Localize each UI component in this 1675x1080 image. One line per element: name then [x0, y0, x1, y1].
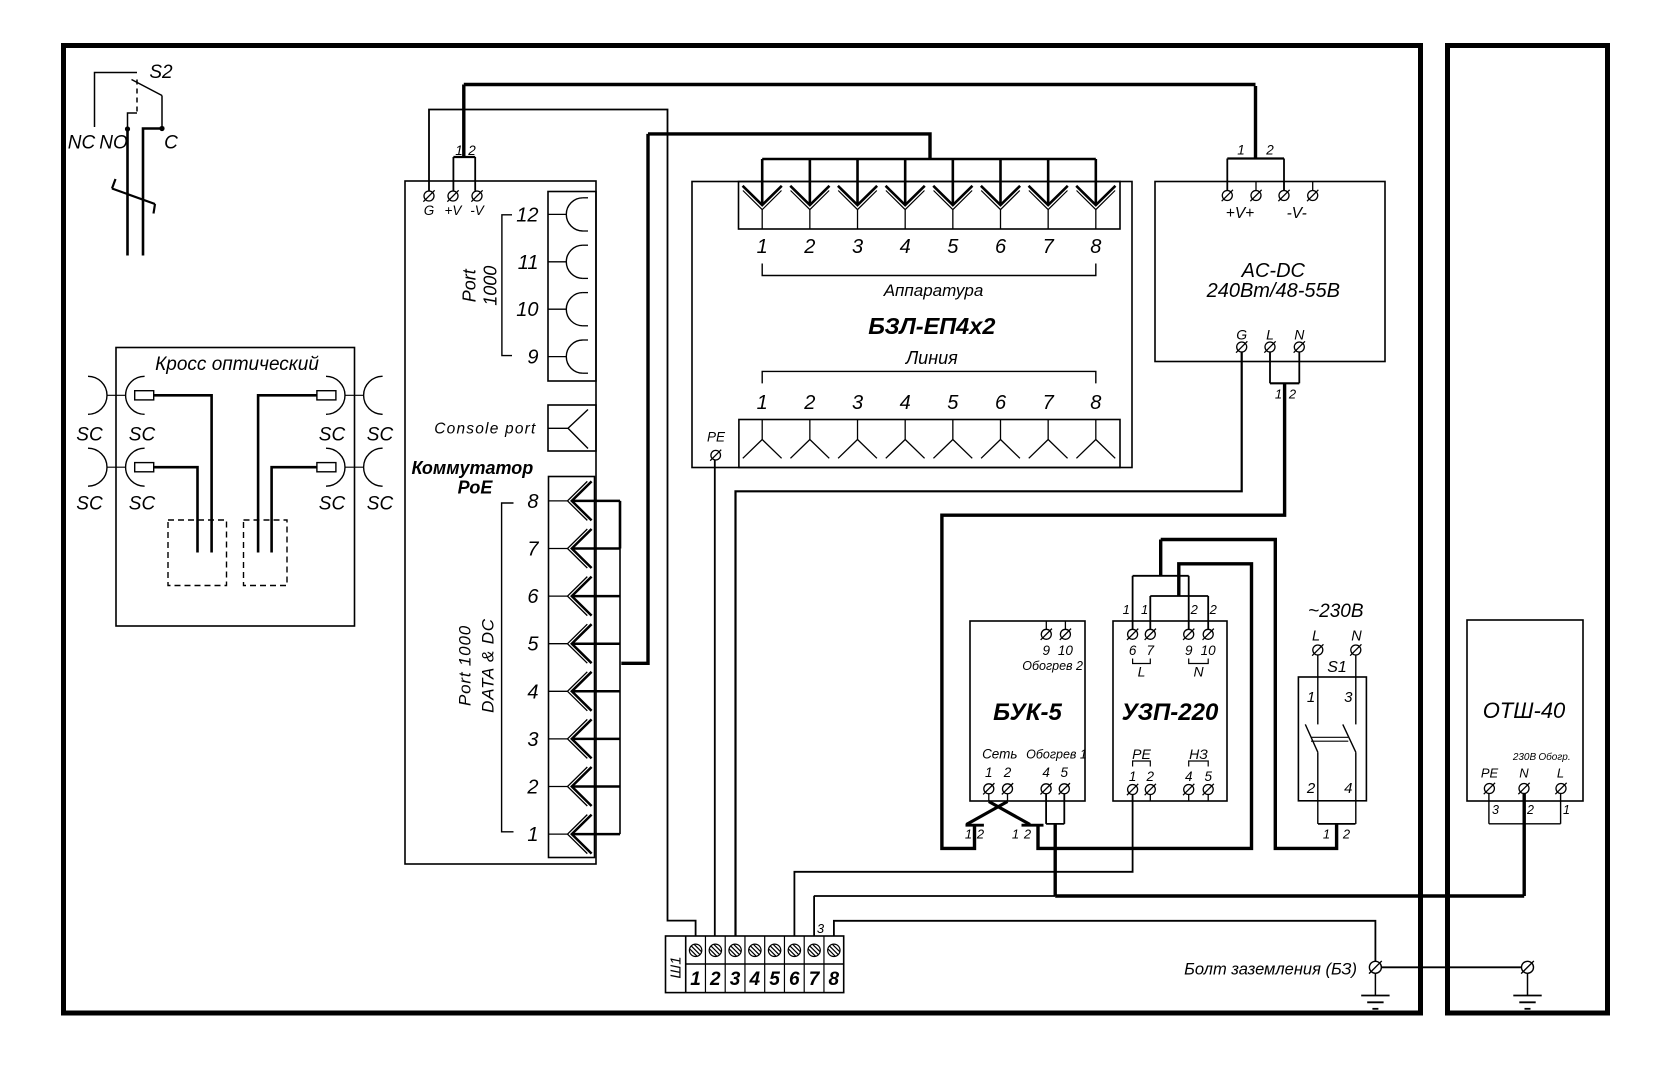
svg-text:БЗЛ-ЕП4х2: БЗЛ-ЕП4х2 — [868, 313, 995, 339]
svg-text:SC: SC — [319, 425, 346, 446]
svg-text:7: 7 — [1043, 392, 1055, 414]
svg-text:Обогр.: Обогр. — [1538, 751, 1570, 763]
svg-text:Линия: Линия — [905, 348, 958, 368]
svg-text:DATA & DC: DATA & DC — [479, 618, 498, 713]
svg-text:Ш1: Ш1 — [668, 956, 685, 978]
svg-text:2: 2 — [709, 969, 721, 990]
svg-text:NO: NO — [99, 133, 128, 154]
svg-text:2: 2 — [1306, 780, 1316, 797]
svg-text:-V-: -V- — [1287, 205, 1307, 222]
svg-text:1: 1 — [1123, 602, 1130, 617]
svg-text:L: L — [1138, 664, 1146, 680]
svg-text:S2: S2 — [149, 62, 173, 83]
svg-text:2: 2 — [526, 777, 538, 799]
svg-text:SC: SC — [129, 494, 156, 515]
svg-text:5: 5 — [527, 634, 539, 656]
svg-text:УЗП-220: УЗП-220 — [1122, 699, 1219, 726]
svg-text:2: 2 — [976, 827, 985, 842]
svg-text:3: 3 — [1344, 689, 1353, 706]
svg-text:Коммутатор: Коммутатор — [412, 458, 534, 478]
svg-text:SC: SC — [129, 425, 156, 446]
svg-text:PE: PE — [707, 430, 726, 445]
svg-text:РоЕ: РоЕ — [458, 478, 494, 498]
svg-text:4: 4 — [1042, 765, 1050, 780]
svg-text:Болт заземления (БЗ): Болт заземления (БЗ) — [1184, 961, 1357, 979]
svg-text:2: 2 — [1003, 765, 1012, 780]
svg-text:1: 1 — [690, 969, 701, 990]
svg-text:2: 2 — [1288, 387, 1297, 402]
svg-text:1: 1 — [1141, 602, 1148, 617]
svg-text:SC: SC — [76, 425, 103, 446]
svg-text:3: 3 — [852, 392, 863, 414]
svg-text:1: 1 — [1012, 827, 1019, 842]
svg-text:6: 6 — [995, 236, 1007, 258]
svg-text:5: 5 — [947, 392, 959, 414]
svg-text:3: 3 — [527, 729, 538, 751]
svg-text:N: N — [1193, 664, 1204, 680]
svg-text:1: 1 — [757, 236, 768, 258]
svg-text:2: 2 — [1190, 602, 1199, 617]
svg-text:2: 2 — [467, 143, 476, 158]
svg-text:10: 10 — [1201, 643, 1217, 658]
svg-text:6: 6 — [789, 969, 800, 990]
svg-text:PE: PE — [1481, 766, 1499, 781]
svg-text:5: 5 — [769, 969, 780, 990]
svg-text:9: 9 — [1185, 643, 1193, 658]
svg-text:C: C — [164, 133, 178, 154]
svg-text:Аппаратура: Аппаратура — [883, 281, 984, 300]
svg-text:2: 2 — [1023, 827, 1032, 842]
svg-text:Сеть: Сеть — [982, 747, 1017, 762]
svg-text:1: 1 — [757, 392, 768, 414]
svg-text:8: 8 — [829, 969, 840, 990]
svg-text:2: 2 — [1265, 143, 1274, 158]
svg-text:7: 7 — [809, 969, 821, 990]
svg-text:2: 2 — [803, 392, 815, 414]
svg-text:8: 8 — [1090, 392, 1101, 414]
svg-text:PE: PE — [1132, 746, 1151, 762]
svg-text:L: L — [1557, 766, 1564, 781]
svg-text:6: 6 — [527, 586, 539, 608]
svg-text:1: 1 — [985, 765, 993, 780]
svg-text:Обогрев 2: Обогрев 2 — [1022, 659, 1083, 673]
svg-text:1: 1 — [1323, 827, 1330, 842]
svg-text:2: 2 — [803, 236, 815, 258]
svg-text:4: 4 — [900, 236, 911, 258]
svg-text:3: 3 — [817, 921, 825, 936]
svg-text:1: 1 — [455, 143, 463, 158]
svg-text:7: 7 — [527, 539, 539, 561]
svg-text:БУК-5: БУК-5 — [993, 699, 1062, 726]
svg-text:9: 9 — [527, 347, 538, 369]
svg-text:2: 2 — [1146, 769, 1155, 784]
svg-text:SC: SC — [367, 494, 394, 515]
svg-text:AC-DC: AC-DC — [1241, 260, 1306, 282]
svg-text:5: 5 — [1061, 765, 1069, 780]
svg-text:1: 1 — [1563, 803, 1570, 817]
svg-text:N: N — [1294, 327, 1305, 343]
svg-text:НЗ: НЗ — [1189, 746, 1208, 762]
svg-text:5: 5 — [947, 236, 959, 258]
svg-text:2: 2 — [1209, 602, 1218, 617]
svg-text:8: 8 — [527, 491, 538, 513]
svg-text:NC: NC — [68, 133, 96, 154]
svg-text:11: 11 — [518, 252, 539, 274]
svg-text:SC: SC — [76, 494, 103, 515]
svg-text:1: 1 — [1307, 689, 1315, 706]
svg-text:L: L — [1312, 629, 1320, 645]
svg-text:+V: +V — [445, 203, 464, 218]
svg-text:2: 2 — [1526, 803, 1534, 817]
svg-text:3: 3 — [730, 969, 741, 990]
svg-text:8: 8 — [1090, 236, 1101, 258]
svg-text:4: 4 — [1344, 780, 1352, 797]
svg-text:9: 9 — [1043, 643, 1051, 658]
svg-text:SC: SC — [319, 494, 346, 515]
svg-text:7: 7 — [1043, 236, 1055, 258]
svg-text:G: G — [424, 203, 435, 218]
svg-text:3: 3 — [1492, 803, 1499, 817]
svg-text:N: N — [1351, 629, 1362, 645]
svg-text:4: 4 — [900, 392, 911, 414]
svg-text:230В: 230В — [1512, 752, 1537, 763]
svg-text:Port 1000: Port 1000 — [456, 625, 475, 706]
svg-text:4: 4 — [527, 681, 538, 703]
svg-text:ОТШ-40: ОТШ-40 — [1483, 698, 1566, 723]
svg-text:12: 12 — [516, 204, 538, 226]
svg-text:4: 4 — [749, 969, 761, 990]
svg-text:7: 7 — [1147, 643, 1155, 658]
svg-text:N: N — [1519, 766, 1529, 781]
svg-text:5: 5 — [1204, 769, 1212, 784]
svg-text:~230В: ~230В — [1308, 601, 1364, 622]
svg-text:1: 1 — [1237, 143, 1245, 158]
svg-text:1: 1 — [965, 827, 972, 842]
svg-text:4: 4 — [1185, 769, 1193, 784]
svg-text:Обогрев 1: Обогрев 1 — [1026, 748, 1087, 762]
svg-text:SC: SC — [367, 425, 394, 446]
svg-text:3: 3 — [852, 236, 863, 258]
svg-text:1: 1 — [1275, 387, 1282, 402]
svg-text:6: 6 — [1129, 643, 1137, 658]
svg-text:10: 10 — [1058, 643, 1074, 658]
svg-text:1: 1 — [527, 824, 538, 846]
svg-text:L: L — [1266, 327, 1274, 343]
svg-text:240Вт/48-55В: 240Вт/48-55В — [1206, 280, 1340, 302]
svg-text:2: 2 — [1342, 827, 1351, 842]
svg-text:10: 10 — [516, 299, 538, 321]
svg-text:Console port: Console port — [434, 421, 536, 438]
svg-text:6: 6 — [995, 392, 1007, 414]
svg-text:Кросс оптический: Кросс оптический — [155, 354, 319, 375]
svg-text:S1: S1 — [1327, 659, 1347, 676]
svg-text:Port: Port — [460, 268, 480, 302]
svg-text:+V+: +V+ — [1226, 205, 1254, 222]
svg-text:G: G — [1236, 327, 1247, 343]
svg-text:1: 1 — [1129, 769, 1137, 784]
svg-text:1000: 1000 — [481, 266, 501, 306]
svg-text:-V: -V — [470, 203, 485, 218]
